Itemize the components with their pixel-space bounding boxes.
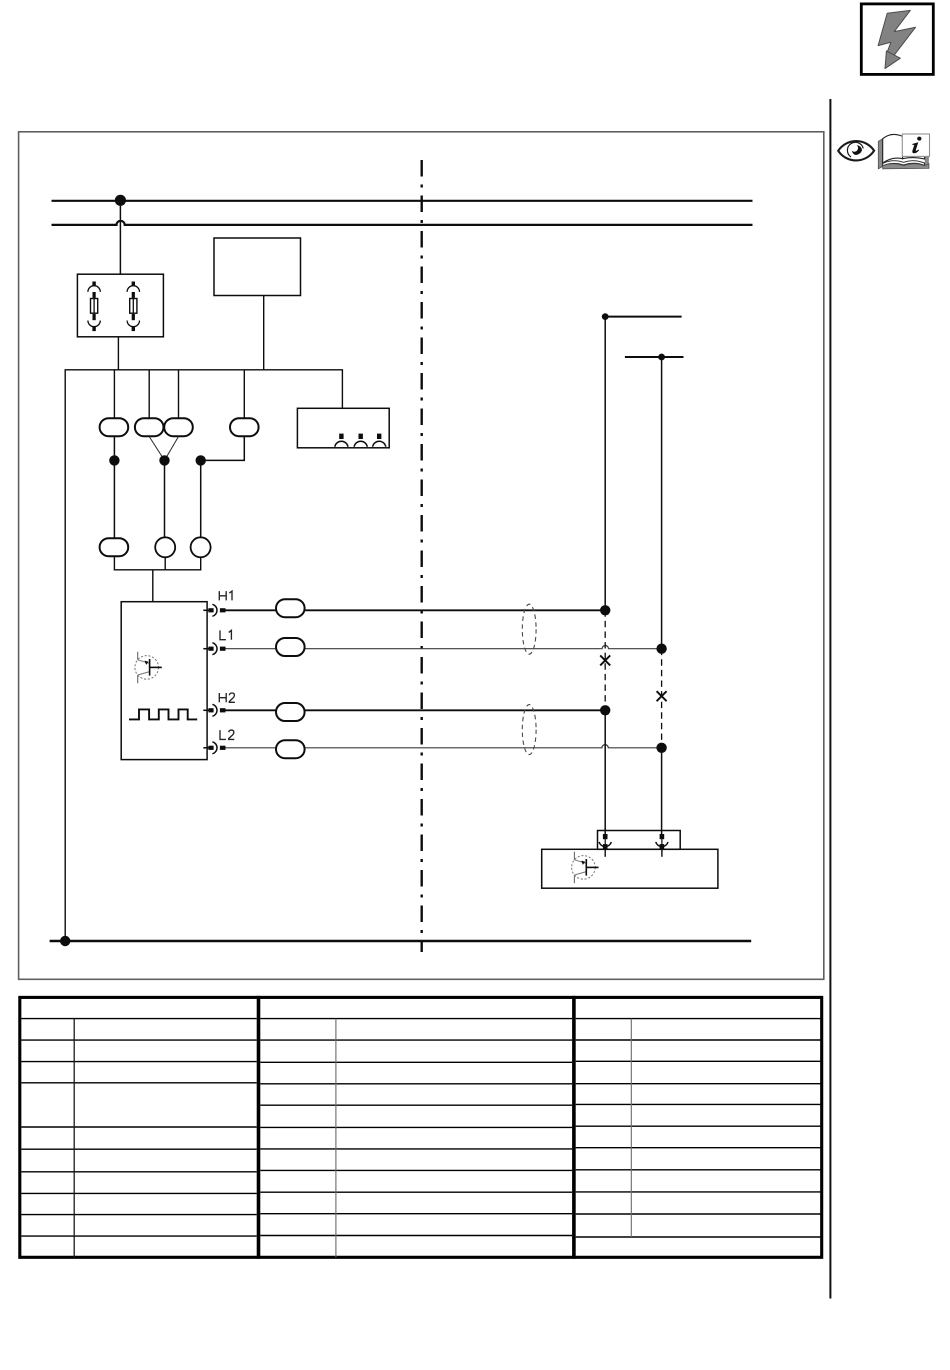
legend table middle section inner divider (335, 1019, 337, 1258)
actuator module box (542, 849, 718, 888)
wire drop 4 (243, 370, 245, 418)
pin L2 (203, 742, 225, 754)
bus bar 31 (lower supply rail) with crossover hump (52, 221, 753, 225)
page divider rule (829, 99, 831, 1299)
legend table right section inner divider (630, 1019, 632, 1237)
wire: pill2/pill3 V-join (149, 437, 178, 461)
lamp socket contact 2 (354, 434, 367, 447)
wire H1 (CAN high 1) (226, 609, 606, 611)
connector pill 4 (230, 418, 259, 436)
pin H2 (203, 704, 225, 716)
connector pill on H2 (276, 703, 305, 721)
wire: pill4 to splice 3 (201, 436, 245, 537)
shielding ellipse pair 2 (522, 705, 536, 755)
wire L2 (CAN low 2) with hump over feed (226, 745, 662, 748)
fuse 2 (127, 282, 139, 332)
wire L1 (CAN low 1) with hump over feed (226, 646, 662, 649)
pin H1 (203, 604, 225, 616)
high-voltage warning box (861, 4, 933, 75)
connector pill 3 (164, 418, 193, 436)
fuse 1 (88, 282, 100, 332)
shielding ellipse pair 1 (522, 604, 536, 654)
pulse waveform symbol (129, 709, 197, 719)
pin L1 (203, 643, 225, 655)
feed wire 2 solid upper (661, 357, 663, 649)
bus bar 30 (upper supply rail) (52, 200, 753, 202)
connector pill on L2 (276, 740, 305, 758)
feed wire 2 solid lower (661, 748, 663, 835)
ground junction dot (60, 936, 70, 946)
lamp socket contact 3 (373, 434, 386, 447)
label L2 (220, 730, 234, 739)
junction dot on bus 30 (115, 195, 126, 206)
transistor symbol U2 (572, 852, 599, 884)
ring terminal 2 (191, 537, 211, 557)
letter i glyph (912, 137, 921, 154)
junction dot H2 (600, 705, 610, 715)
connector pill 1 (100, 418, 129, 436)
distribution bus wire (65, 370, 342, 941)
feed wire 2 dashed middle (661, 649, 663, 748)
wire drop 1 from distribution bus (113, 370, 115, 418)
junction dot H1 (600, 605, 610, 615)
wire: control unit to distribution bus (263, 296, 265, 370)
splice cross mark 1 (600, 655, 610, 665)
feed wire 1 solid lower (604, 710, 606, 835)
wire drop 3 (178, 370, 180, 418)
junction dot L1 (656, 644, 666, 654)
eye icon (observe symbol) (838, 141, 874, 160)
splice dot 3 (196, 455, 206, 465)
connector housing box (598, 831, 681, 850)
ECU box (121, 602, 207, 760)
legend table left section inner divider (73, 1019, 75, 1258)
lamp socket contact 1 (335, 434, 348, 447)
label H1 (219, 591, 232, 600)
label L1 (220, 630, 231, 639)
dash-dot section divider (421, 160, 423, 952)
gathering bus below connectors (114, 556, 200, 602)
legend table thick column dividers (257, 996, 261, 1259)
lightning bolt symbol (878, 10, 916, 68)
connector pill on H1 (276, 599, 305, 617)
ring terminal 1 (155, 537, 175, 557)
wire: splice 2 to ring terminal 1 (164, 460, 166, 537)
wire: bus 30 to fuse box (119, 200, 121, 274)
feed wire 1 dashed middle (604, 610, 606, 710)
connector pill on L1 (276, 638, 305, 656)
schematic frame (19, 132, 824, 980)
legend table left section row lines (21, 1019, 256, 1237)
splice dot 1 (109, 455, 119, 465)
wire drop 2 (148, 370, 150, 418)
transistor symbol U1 (135, 652, 162, 684)
junction dot L2 (656, 743, 666, 753)
ground bus bar (50, 940, 752, 943)
wire: pill1 to splice 1 (113, 436, 115, 537)
connector pill 2 (135, 418, 164, 436)
connector pill 5 (100, 538, 129, 556)
info book icon (878, 134, 929, 169)
stub bus bar upper right (605, 316, 682, 318)
legend table right section row lines (576, 1019, 822, 1237)
wire: fuse box to distribution bus (117, 337, 119, 370)
junction dot on upper stub bus (602, 313, 609, 320)
wire H2 (CAN high 2) (226, 709, 606, 711)
fuse box (77, 274, 163, 337)
connector pin B (down-facing) (656, 834, 668, 857)
connector pin A (down-facing) (599, 834, 611, 857)
splice cross mark 2 (657, 691, 667, 701)
control unit box (upper) (214, 238, 301, 296)
lamp module box (297, 408, 389, 448)
splice dot 2 (159, 455, 169, 465)
legend table middle section row lines (260, 1019, 572, 1236)
junction dot on lower stub bus (658, 354, 665, 361)
legend table outer border (20, 997, 822, 1257)
stub bus bar lower right (625, 356, 684, 358)
label H2 (219, 693, 235, 702)
feed wire 1 solid upper (604, 317, 606, 611)
